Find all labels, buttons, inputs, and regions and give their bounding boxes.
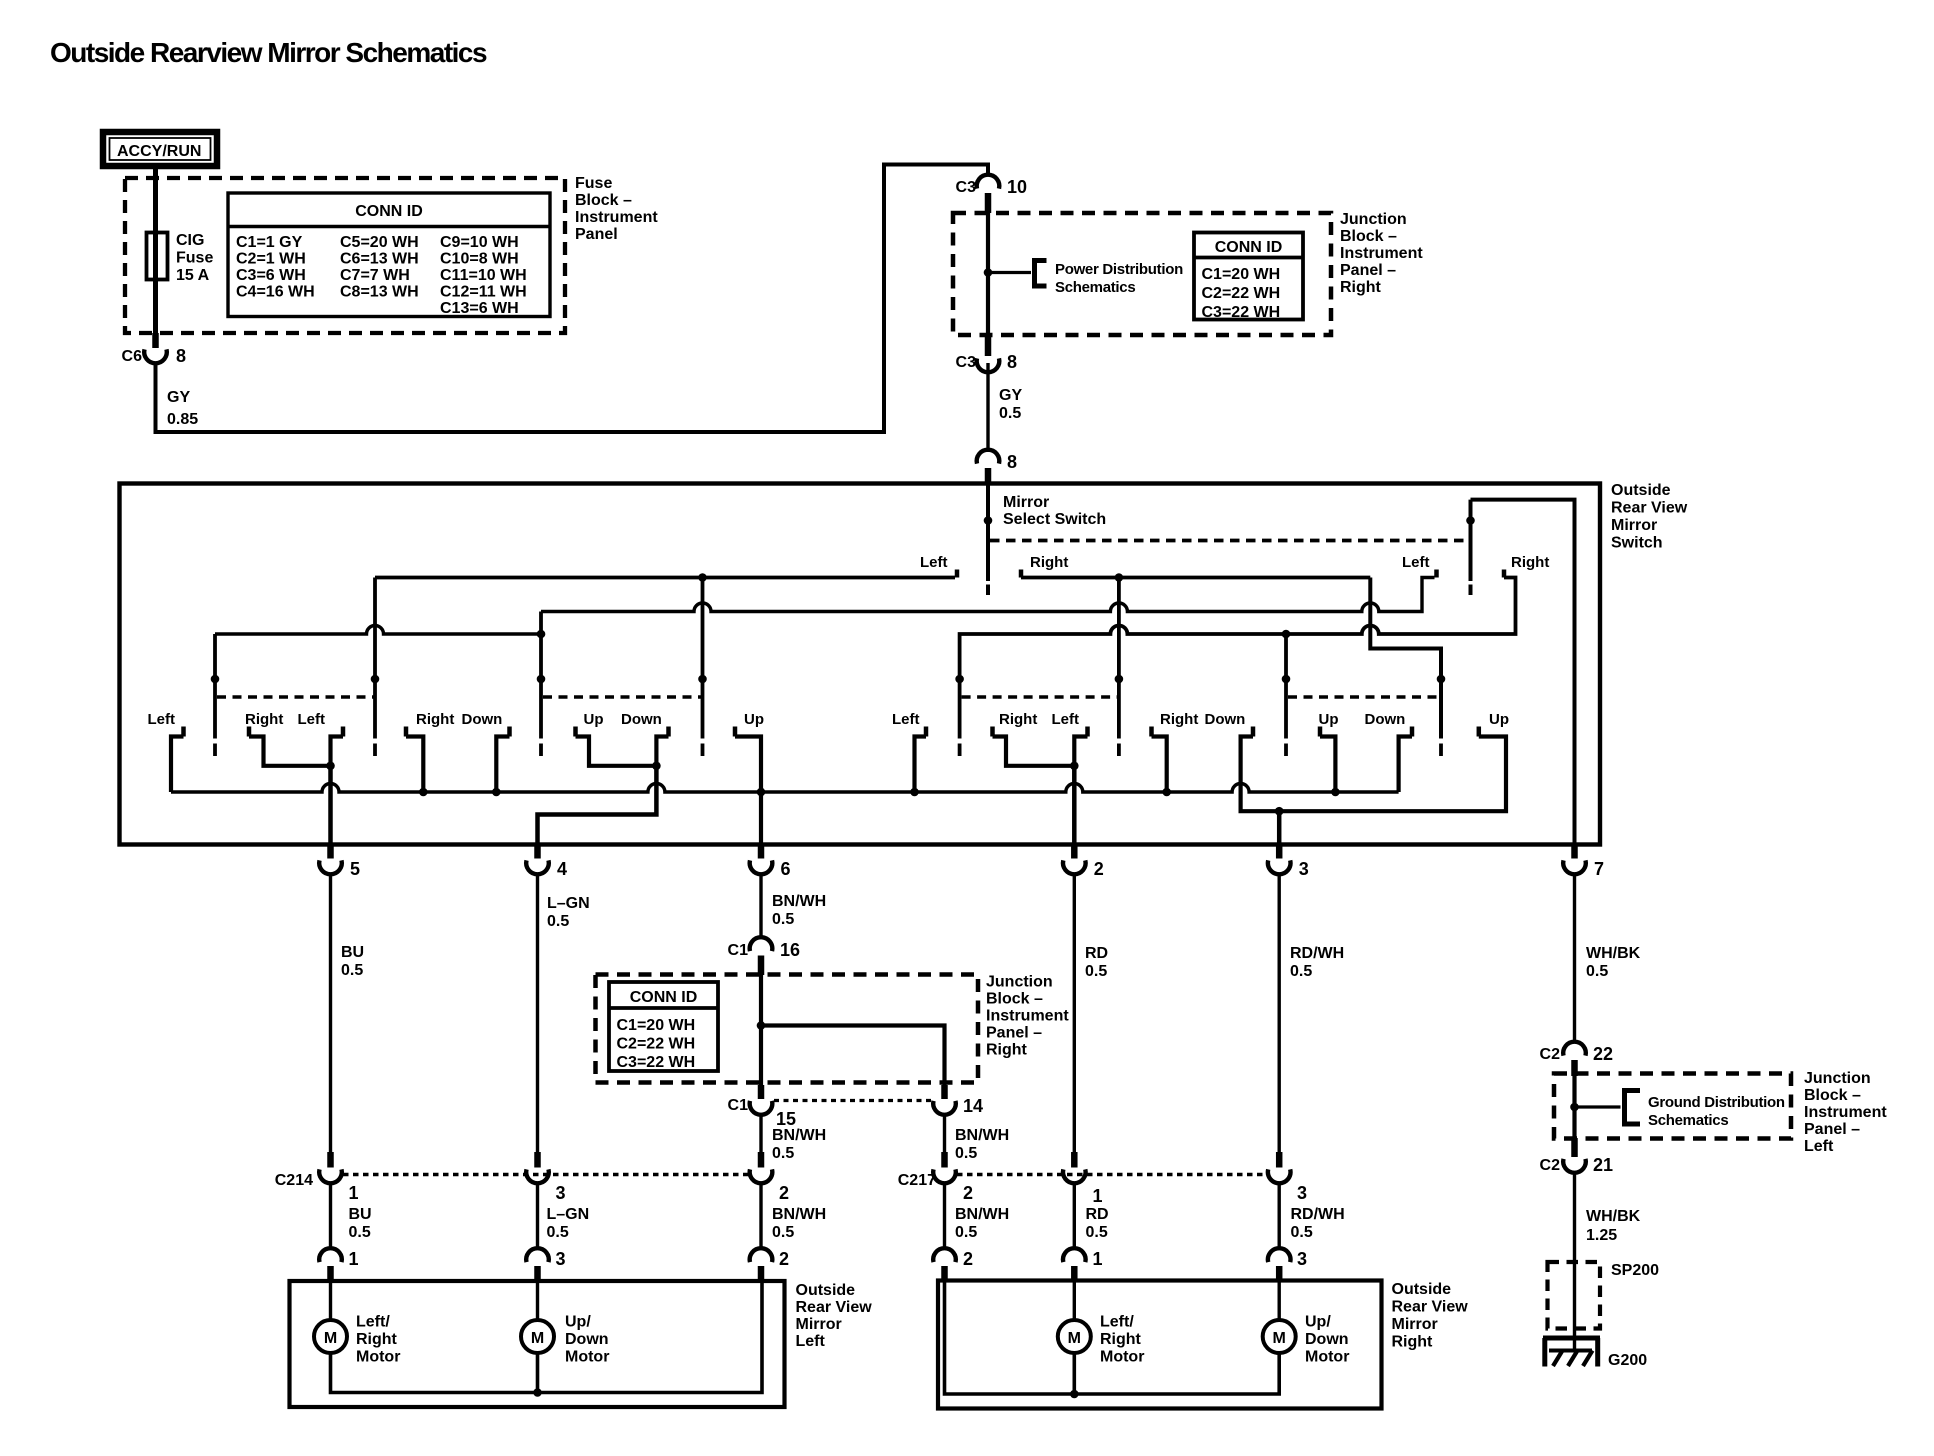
select contact Right (feeds right mirror) row A2: [1021, 554, 1370, 578]
connector right motor pin 3: [1268, 1248, 1307, 1282]
wire label RD 0.5: [1085, 945, 1108, 980]
connector pin 14: [933, 1085, 983, 1116]
svg-text:0.5: 0.5: [1586, 963, 1608, 980]
wire label BN/WH 0.5: [772, 893, 826, 928]
svg-text:Down: Down: [1205, 711, 1246, 728]
svg-text:14: 14: [963, 1096, 983, 1116]
contact pair Right/Left (left mirror, pin 5): [245, 711, 343, 770]
label Junction Block - Instrument Panel - Right (lower): [986, 974, 1069, 1059]
wire label RD 0.5: [1086, 1206, 1109, 1241]
svg-text:Right: Right: [1392, 1334, 1434, 1351]
wire pin4 to C214-3 L-GN: [536, 875, 539, 1153]
switch pin 7: [1563, 845, 1604, 880]
wire through left junction block: [1572, 1076, 1576, 1137]
conn id table (junction block lower): [609, 982, 718, 1071]
junction block IP left dashed box: [1554, 1074, 1791, 1139]
connector C214 row: [275, 1152, 359, 1203]
svg-text:RD/WH: RD/WH: [1290, 945, 1344, 962]
wire label BU 0.5: [349, 1206, 372, 1241]
svg-text:GY: GY: [167, 389, 190, 406]
svg-text:Right: Right: [999, 711, 1037, 728]
node junction dot: [1570, 1103, 1579, 1112]
wire pin 2 drop: [1072, 766, 1077, 845]
svg-text:Outside: Outside: [1392, 1281, 1452, 1298]
switch pin 3: [1268, 845, 1309, 880]
svg-text:Down: Down: [462, 711, 503, 728]
svg-text:Outside: Outside: [1611, 482, 1671, 499]
svg-text:G200: G200: [1608, 1352, 1647, 1369]
bracket Power Distribution Schematics: [1035, 261, 1184, 297]
svg-text:Down: Down: [1365, 711, 1406, 728]
wire branch to pin 14: [761, 1026, 945, 1086]
svg-text:Right: Right: [416, 711, 454, 728]
contact Up single (left mirror, pin 6): [735, 711, 765, 845]
svg-text:C5=20 WH: C5=20 WH: [340, 234, 419, 251]
svg-text:Left/: Left/: [1100, 1314, 1134, 1331]
svg-text:M: M: [531, 1330, 544, 1347]
motor M left/right (right mirror): [1058, 1282, 1145, 1366]
switch arm x215 (left mirror L/R rocker outer arm): [211, 634, 220, 756]
svg-text:Outside Rearview Mirror Schema: Outside Rearview Mirror Schematics: [50, 37, 487, 68]
node junction dot: [984, 268, 993, 277]
svg-text:0.5: 0.5: [547, 913, 569, 930]
svg-text:Switch: Switch: [1611, 535, 1663, 552]
box Outside Rear View Mirror Right: [938, 1281, 1382, 1409]
svg-text:Fuse: Fuse: [176, 250, 213, 267]
svg-text:0.5: 0.5: [772, 1224, 794, 1241]
svg-text:C9=10 WH: C9=10 WH: [440, 234, 519, 251]
svg-text:0.5: 0.5: [349, 1224, 371, 1241]
connector C214 pin 2: [750, 1152, 789, 1203]
connector C217 row: [898, 1152, 973, 1203]
select2 contact Right with row C: [960, 554, 1550, 739]
switch pin 4: [526, 845, 567, 880]
wire pin 5 drop: [328, 766, 333, 845]
switch arm x1286 (right mirror U/D rocker inner arm): [1282, 634, 1291, 756]
box Outside Rear View Mirror Left: [290, 1281, 785, 1407]
svg-text:Right: Right: [245, 711, 283, 728]
wire C1-15 down to C217: [759, 1115, 762, 1152]
label Mirror Select Switch: [1003, 494, 1106, 528]
svg-text:Down: Down: [1305, 1331, 1349, 1348]
wire select common to switch pin 7: [1471, 500, 1575, 845]
wire pin2 to C217-1 RD: [1073, 875, 1076, 1153]
svg-text:Up/: Up/: [1305, 1314, 1331, 1331]
svg-text:C2=22 WH: C2=22 WH: [1202, 285, 1281, 302]
svg-text:4: 4: [557, 859, 567, 879]
svg-text:0.5: 0.5: [955, 1224, 977, 1241]
wire label BN/WH 0.5 (pin15): [772, 1127, 826, 1162]
svg-text:22: 22: [1593, 1044, 1613, 1064]
wire left motor internal common: [331, 1282, 763, 1393]
switch arm x1441 (right mirror U/D rocker outer arm): [1437, 675, 1446, 756]
node dot on arm x1118.9: [1115, 573, 1124, 582]
select switch feed arm: [984, 484, 993, 596]
svg-text:BN/WH: BN/WH: [772, 1127, 826, 1144]
contact Left single (left mirror): [148, 711, 184, 792]
svg-text:C3: C3: [956, 179, 977, 196]
svg-text:1: 1: [349, 1249, 359, 1269]
svg-text:BU: BU: [349, 1206, 372, 1223]
junction block IP right (lower) dashed box: [596, 975, 979, 1083]
connector C217 pin 1: [1063, 1152, 1103, 1206]
fuse CIG Fuse 15 A: [147, 232, 214, 284]
connector left motor pin 2: [750, 1248, 789, 1282]
svg-text:Left: Left: [298, 711, 326, 728]
svg-text:C3: C3: [956, 354, 977, 371]
svg-text:C2: C2: [1540, 1157, 1561, 1174]
contact pair Up/Down (right mirror, to bus): [1319, 711, 1413, 796]
svg-text:ACCY/RUN: ACCY/RUN: [117, 143, 201, 160]
connector C6 pin 8: [122, 333, 186, 366]
connector switch pin 8: [977, 450, 1017, 484]
svg-text:Panel: Panel: [575, 226, 618, 243]
svg-text:Left: Left: [148, 711, 176, 728]
node dot: [533, 1388, 542, 1397]
svg-text:Motor: Motor: [565, 1349, 609, 1366]
svg-text:Rear View: Rear View: [1392, 1299, 1469, 1316]
wire label BN/WH 0.5: [955, 1206, 1009, 1241]
svg-text:Rear View: Rear View: [796, 1299, 873, 1316]
svg-text:Instrument: Instrument: [986, 1008, 1069, 1025]
svg-text:Panel –: Panel –: [1340, 262, 1396, 279]
svg-text:1.25: 1.25: [1586, 1227, 1617, 1244]
svg-text:Right: Right: [1030, 554, 1068, 571]
wire C6 to C3-10: [156, 165, 989, 433]
svg-text:M: M: [1273, 1330, 1286, 1347]
svg-text:Right: Right: [1160, 711, 1198, 728]
svg-text:Ground Distribution: Ground Distribution: [1648, 1094, 1785, 1111]
svg-text:C1=20 WH: C1=20 WH: [1202, 266, 1281, 283]
connector C1 pin 16: [728, 937, 800, 975]
ground G200: [1543, 1338, 1647, 1369]
motor M up/down (left mirror): [521, 1282, 609, 1366]
svg-text:3: 3: [1299, 859, 1309, 879]
svg-text:Panel –: Panel –: [986, 1025, 1042, 1042]
wire C217-2 to motor BN/WH: [943, 1184, 946, 1249]
svg-text:15 A: 15 A: [176, 267, 210, 284]
svg-text:C13=6 WH: C13=6 WH: [440, 300, 519, 317]
wire pin14 down to C217-2: [943, 1115, 946, 1152]
wire common bus inside switch: [171, 784, 1399, 793]
svg-text:Block –: Block –: [575, 192, 632, 209]
wire label RD/WH 0.5: [1290, 945, 1344, 980]
svg-text:2: 2: [779, 1249, 789, 1269]
svg-text:L–GN: L–GN: [547, 1206, 590, 1223]
select switch right arm: [1466, 500, 1475, 595]
label Junction Block - Instrument Panel - Right: [1340, 211, 1423, 296]
contact pair Right/Left (right mirror, pin 2): [993, 711, 1088, 770]
wire label BU 0.5: [341, 944, 364, 979]
svg-text:C1=1 GY: C1=1 GY: [236, 234, 303, 251]
rocker mechanical dashed links: [217, 695, 1441, 699]
svg-text:0.5: 0.5: [772, 1145, 794, 1162]
svg-text:Junction: Junction: [1804, 1070, 1871, 1087]
svg-text:BN/WH: BN/WH: [955, 1127, 1009, 1144]
svg-text:7: 7: [1594, 859, 1604, 879]
wire label L-GN 0.5: [547, 895, 590, 930]
connector C1 pin 15: [728, 1085, 796, 1129]
svg-text:8: 8: [1007, 452, 1017, 472]
svg-text:Left: Left: [892, 711, 920, 728]
svg-text:WH/BK: WH/BK: [1586, 1208, 1641, 1225]
svg-text:2: 2: [963, 1183, 973, 1203]
wire C3-8 to switch pin 8: [986, 363, 989, 452]
connector left motor pin 3: [526, 1248, 565, 1282]
bracket Ground Distribution Schematics: [1625, 1091, 1785, 1130]
svg-text:CONN ID: CONN ID: [355, 203, 423, 220]
switch pin 2: [1063, 845, 1104, 880]
wire pin5 to C214-1 BU: [329, 875, 332, 1153]
svg-text:5: 5: [350, 859, 360, 879]
svg-text:C12=11 WH: C12=11 WH: [440, 284, 527, 301]
wire C2-21 to SP200 WH/BK: [1573, 1173, 1576, 1352]
svg-text:Mirror: Mirror: [796, 1316, 842, 1333]
connector dotted link C1: [774, 1099, 931, 1102]
wire row B from arm x541 to select2 Left contact: [541, 578, 1435, 612]
svg-text:Schematics: Schematics: [1648, 1112, 1728, 1129]
wire M1 to common: [1073, 1353, 1077, 1394]
label Junction Block - Instrument Panel - Left: [1804, 1070, 1887, 1155]
svg-text:WH/BK: WH/BK: [1586, 945, 1641, 962]
switch box Outside Rear View Mirror Switch: [120, 484, 1601, 845]
svg-text:8: 8: [1007, 352, 1017, 372]
svg-text:Power Distribution: Power Distribution: [1055, 261, 1183, 278]
switch arm x702.5 (left mirror U/D rocker inner arm): [698, 573, 707, 756]
svg-text:0.5: 0.5: [1290, 963, 1312, 980]
label Outside Rear View Mirror Switch: [1611, 482, 1688, 552]
svg-text:M: M: [1068, 1330, 1081, 1347]
switch arm x959.6 (right mirror L/R rocker outer arm): [955, 675, 964, 756]
power symbol ACCY/RUN: [103, 132, 217, 166]
svg-text:M: M: [324, 1330, 337, 1347]
switch arm x375 (left mirror L/R rocker inner arm): [371, 578, 380, 757]
svg-text:0.85: 0.85: [167, 411, 198, 428]
svg-text:Schematics: Schematics: [1055, 279, 1135, 296]
svg-text:C214: C214: [275, 1172, 313, 1189]
wire pin7 to C2-22 WH/BK: [1573, 875, 1576, 1044]
svg-text:GY: GY: [999, 387, 1022, 404]
svg-text:C4=16 WH: C4=16 WH: [236, 284, 315, 301]
svg-text:Right: Right: [1100, 1331, 1142, 1348]
contact Left single (right mirror): [892, 711, 926, 796]
wire pin 4 Z drop: [538, 766, 657, 845]
svg-text:C217: C217: [898, 1172, 936, 1189]
node dot: [1070, 1390, 1079, 1399]
svg-text:Left: Left: [920, 554, 948, 571]
svg-text:Block –: Block –: [1804, 1087, 1861, 1104]
svg-text:Block –: Block –: [1340, 228, 1397, 245]
switch arm x541 (left mirror U/D rocker outer arm): [537, 612, 546, 757]
fuse block dashed box: [125, 178, 565, 333]
svg-text:Down: Down: [565, 1331, 609, 1348]
connector C3 pin 8: [956, 335, 1017, 372]
svg-text:Right: Right: [356, 1331, 398, 1348]
connector C3 pin 10: [956, 175, 1027, 213]
svg-text:C6: C6: [122, 348, 143, 365]
svg-text:C1: C1: [728, 1097, 749, 1114]
wire C214-1 to motor 1 BU: [329, 1184, 332, 1249]
svg-text:Junction: Junction: [986, 974, 1053, 991]
svg-text:BN/WH: BN/WH: [772, 893, 826, 910]
svg-text:Motor: Motor: [1305, 1349, 1349, 1366]
wire label BN/WH 0.5: [772, 1206, 826, 1241]
svg-text:0.5: 0.5: [341, 962, 363, 979]
svg-text:Down: Down: [621, 711, 662, 728]
svg-text:C3=22 WH: C3=22 WH: [617, 1054, 696, 1071]
svg-text:15: 15: [776, 1109, 796, 1129]
svg-text:Select Switch: Select Switch: [1003, 511, 1106, 528]
svg-text:3: 3: [1297, 1249, 1307, 1269]
svg-text:Mirror: Mirror: [1611, 517, 1657, 534]
connector right motor pin 1: [1063, 1248, 1103, 1282]
wire pin3 to C217-3 RD/WH: [1277, 875, 1280, 1153]
svg-text:0.5: 0.5: [1291, 1224, 1313, 1241]
wire pin 3 net with Up single contact (right mirror): [1241, 711, 1509, 816]
contact pair Up/Down (left mirror, pin 4): [576, 711, 669, 770]
svg-text:SP200: SP200: [1611, 1262, 1659, 1279]
node dot on row C arm x1286: [1282, 630, 1291, 639]
svg-text:Motor: Motor: [356, 1349, 400, 1366]
svg-text:C2=1 WH: C2=1 WH: [236, 251, 306, 268]
switch pin 5: [319, 845, 360, 880]
svg-text:Instrument: Instrument: [1804, 1104, 1887, 1121]
svg-text:0.5: 0.5: [1085, 963, 1107, 980]
conn id table (fuse block): [228, 193, 550, 317]
svg-text:1: 1: [1093, 1186, 1103, 1206]
connector C217 pin 3: [1268, 1152, 1307, 1203]
wire C214-3 to motor L-GN: [536, 1184, 539, 1249]
svg-text:Up/: Up/: [565, 1314, 591, 1331]
svg-text:RD: RD: [1086, 1206, 1109, 1223]
wire Z from row A2 to arm x1441: [1370, 578, 1441, 739]
svg-text:3: 3: [556, 1249, 566, 1269]
conn id table (junction block right): [1194, 233, 1303, 322]
motor M left/right (left mirror): [314, 1282, 400, 1366]
svg-text:1: 1: [349, 1183, 359, 1203]
select2 contact Left tick: [1402, 554, 1437, 578]
wire through junction block: [986, 213, 990, 337]
svg-text:2: 2: [963, 1249, 973, 1269]
svg-text:Fuse: Fuse: [575, 175, 612, 192]
wire row joining arms x215 and x541: [215, 626, 541, 635]
svg-text:BN/WH: BN/WH: [955, 1206, 1009, 1223]
svg-text:CONN ID: CONN ID: [630, 989, 698, 1006]
svg-text:0.5: 0.5: [1086, 1224, 1108, 1241]
svg-text:Junction: Junction: [1340, 211, 1407, 228]
junction block IP right dashed box: [953, 213, 1331, 335]
connector dotted link C214: [343, 1173, 749, 1176]
svg-text:Left: Left: [796, 1333, 826, 1350]
svg-text:Up: Up: [744, 711, 764, 728]
node junction dot: [757, 1021, 766, 1030]
svg-text:C7=7 WH: C7=7 WH: [340, 267, 410, 284]
svg-text:0.5: 0.5: [955, 1145, 977, 1162]
svg-text:Left: Left: [1052, 711, 1080, 728]
wire pin6 to C1-16 BN/WH: [759, 875, 762, 939]
svg-text:C8=13 WH: C8=13 WH: [340, 284, 419, 301]
svg-text:L–GN: L–GN: [547, 895, 590, 912]
contact pair Right/Down (right mirror): [1152, 711, 1246, 796]
svg-text:0.5: 0.5: [547, 1224, 569, 1241]
svg-text:Mirror: Mirror: [1392, 1316, 1438, 1333]
wire C214-2 to motor BN/WH: [759, 1184, 762, 1249]
svg-text:Motor: Motor: [1100, 1349, 1144, 1366]
svg-text:C10=8 WH: C10=8 WH: [440, 251, 519, 268]
svg-text:Up: Up: [1319, 711, 1339, 728]
wire label WH/BK 1.25: [1586, 1208, 1641, 1244]
wire ACCY/RUN to fuse to C6: [153, 168, 158, 344]
svg-text:Outside: Outside: [796, 1282, 856, 1299]
switch arm x1118.9 (right mirror L/R rocker inner arm): [1115, 578, 1124, 757]
svg-text:BN/WH: BN/WH: [772, 1206, 826, 1223]
wire label WH/BK 0.5: [1586, 945, 1641, 980]
svg-text:C6=13 WH: C6=13 WH: [340, 251, 419, 268]
svg-text:Left: Left: [1402, 554, 1430, 571]
wire M2 to common: [536, 1353, 540, 1393]
svg-text:C2=22 WH: C2=22 WH: [617, 1036, 696, 1053]
wire label BN/WH 0.5 (pin14): [955, 1127, 1009, 1162]
svg-text:C3=6 WH: C3=6 WH: [236, 267, 306, 284]
select switch mechanical dashed line: [990, 539, 1471, 543]
svg-text:2: 2: [1094, 859, 1104, 879]
connector right motor pin 2: [933, 1248, 973, 1282]
svg-text:21: 21: [1593, 1155, 1613, 1175]
svg-text:Right: Right: [1511, 554, 1549, 571]
svg-text:Left: Left: [1804, 1138, 1834, 1155]
svg-text:2: 2: [779, 1183, 789, 1203]
wire right motor internal common: [945, 1282, 1280, 1394]
contact pair Right/Down (left mirror, to bus): [406, 711, 510, 796]
label Outside Rear View Mirror Left: [796, 1282, 873, 1350]
wire label RD/WH 0.5: [1291, 1206, 1345, 1241]
wire label L-GN 0.5: [547, 1206, 590, 1241]
label Fuse Block - Instrument Panel: [575, 175, 658, 243]
svg-text:C3=22 WH: C3=22 WH: [1202, 304, 1281, 321]
wire branch to power distribution: [988, 271, 1031, 274]
svg-text:BU: BU: [341, 944, 364, 961]
node dot on arm x541: [537, 630, 546, 639]
svg-text:Block –: Block –: [986, 991, 1043, 1008]
select contact Left (feeds left mirror) with row A: [375, 554, 957, 578]
wire C217-1 to motor RD: [1073, 1184, 1076, 1249]
svg-text:CONN ID: CONN ID: [1215, 239, 1283, 256]
svg-text:RD: RD: [1085, 945, 1108, 962]
svg-text:C1=20 WH: C1=20 WH: [617, 1017, 696, 1034]
wire label GY 0.5: [999, 387, 1022, 422]
svg-text:0.5: 0.5: [999, 405, 1021, 422]
svg-text:Panel –: Panel –: [1804, 1121, 1860, 1138]
connector left motor pin 1: [319, 1248, 358, 1282]
svg-text:Instrument: Instrument: [1340, 245, 1423, 262]
connector C214 pin 3: [526, 1152, 565, 1203]
splice SP200 dashed box: [1548, 1262, 1660, 1329]
svg-text:1: 1: [1093, 1249, 1103, 1269]
label Outside Rear View Mirror Right: [1392, 1281, 1469, 1351]
connector C2 pin 22: [1540, 1042, 1613, 1076]
svg-text:10: 10: [1007, 177, 1027, 197]
svg-text:3: 3: [1297, 1183, 1307, 1203]
switch pin 6: [750, 845, 791, 880]
svg-text:CIG: CIG: [176, 232, 204, 249]
connector C2 pin 21: [1540, 1138, 1613, 1175]
svg-text:C11=10 WH: C11=10 WH: [440, 267, 527, 284]
svg-text:Left/: Left/: [356, 1314, 390, 1331]
svg-text:Instrument: Instrument: [575, 209, 658, 226]
wire pin 3 drop: [1277, 811, 1282, 844]
connector dotted link C217: [957, 1173, 1268, 1176]
svg-text:Right: Right: [1340, 279, 1382, 296]
